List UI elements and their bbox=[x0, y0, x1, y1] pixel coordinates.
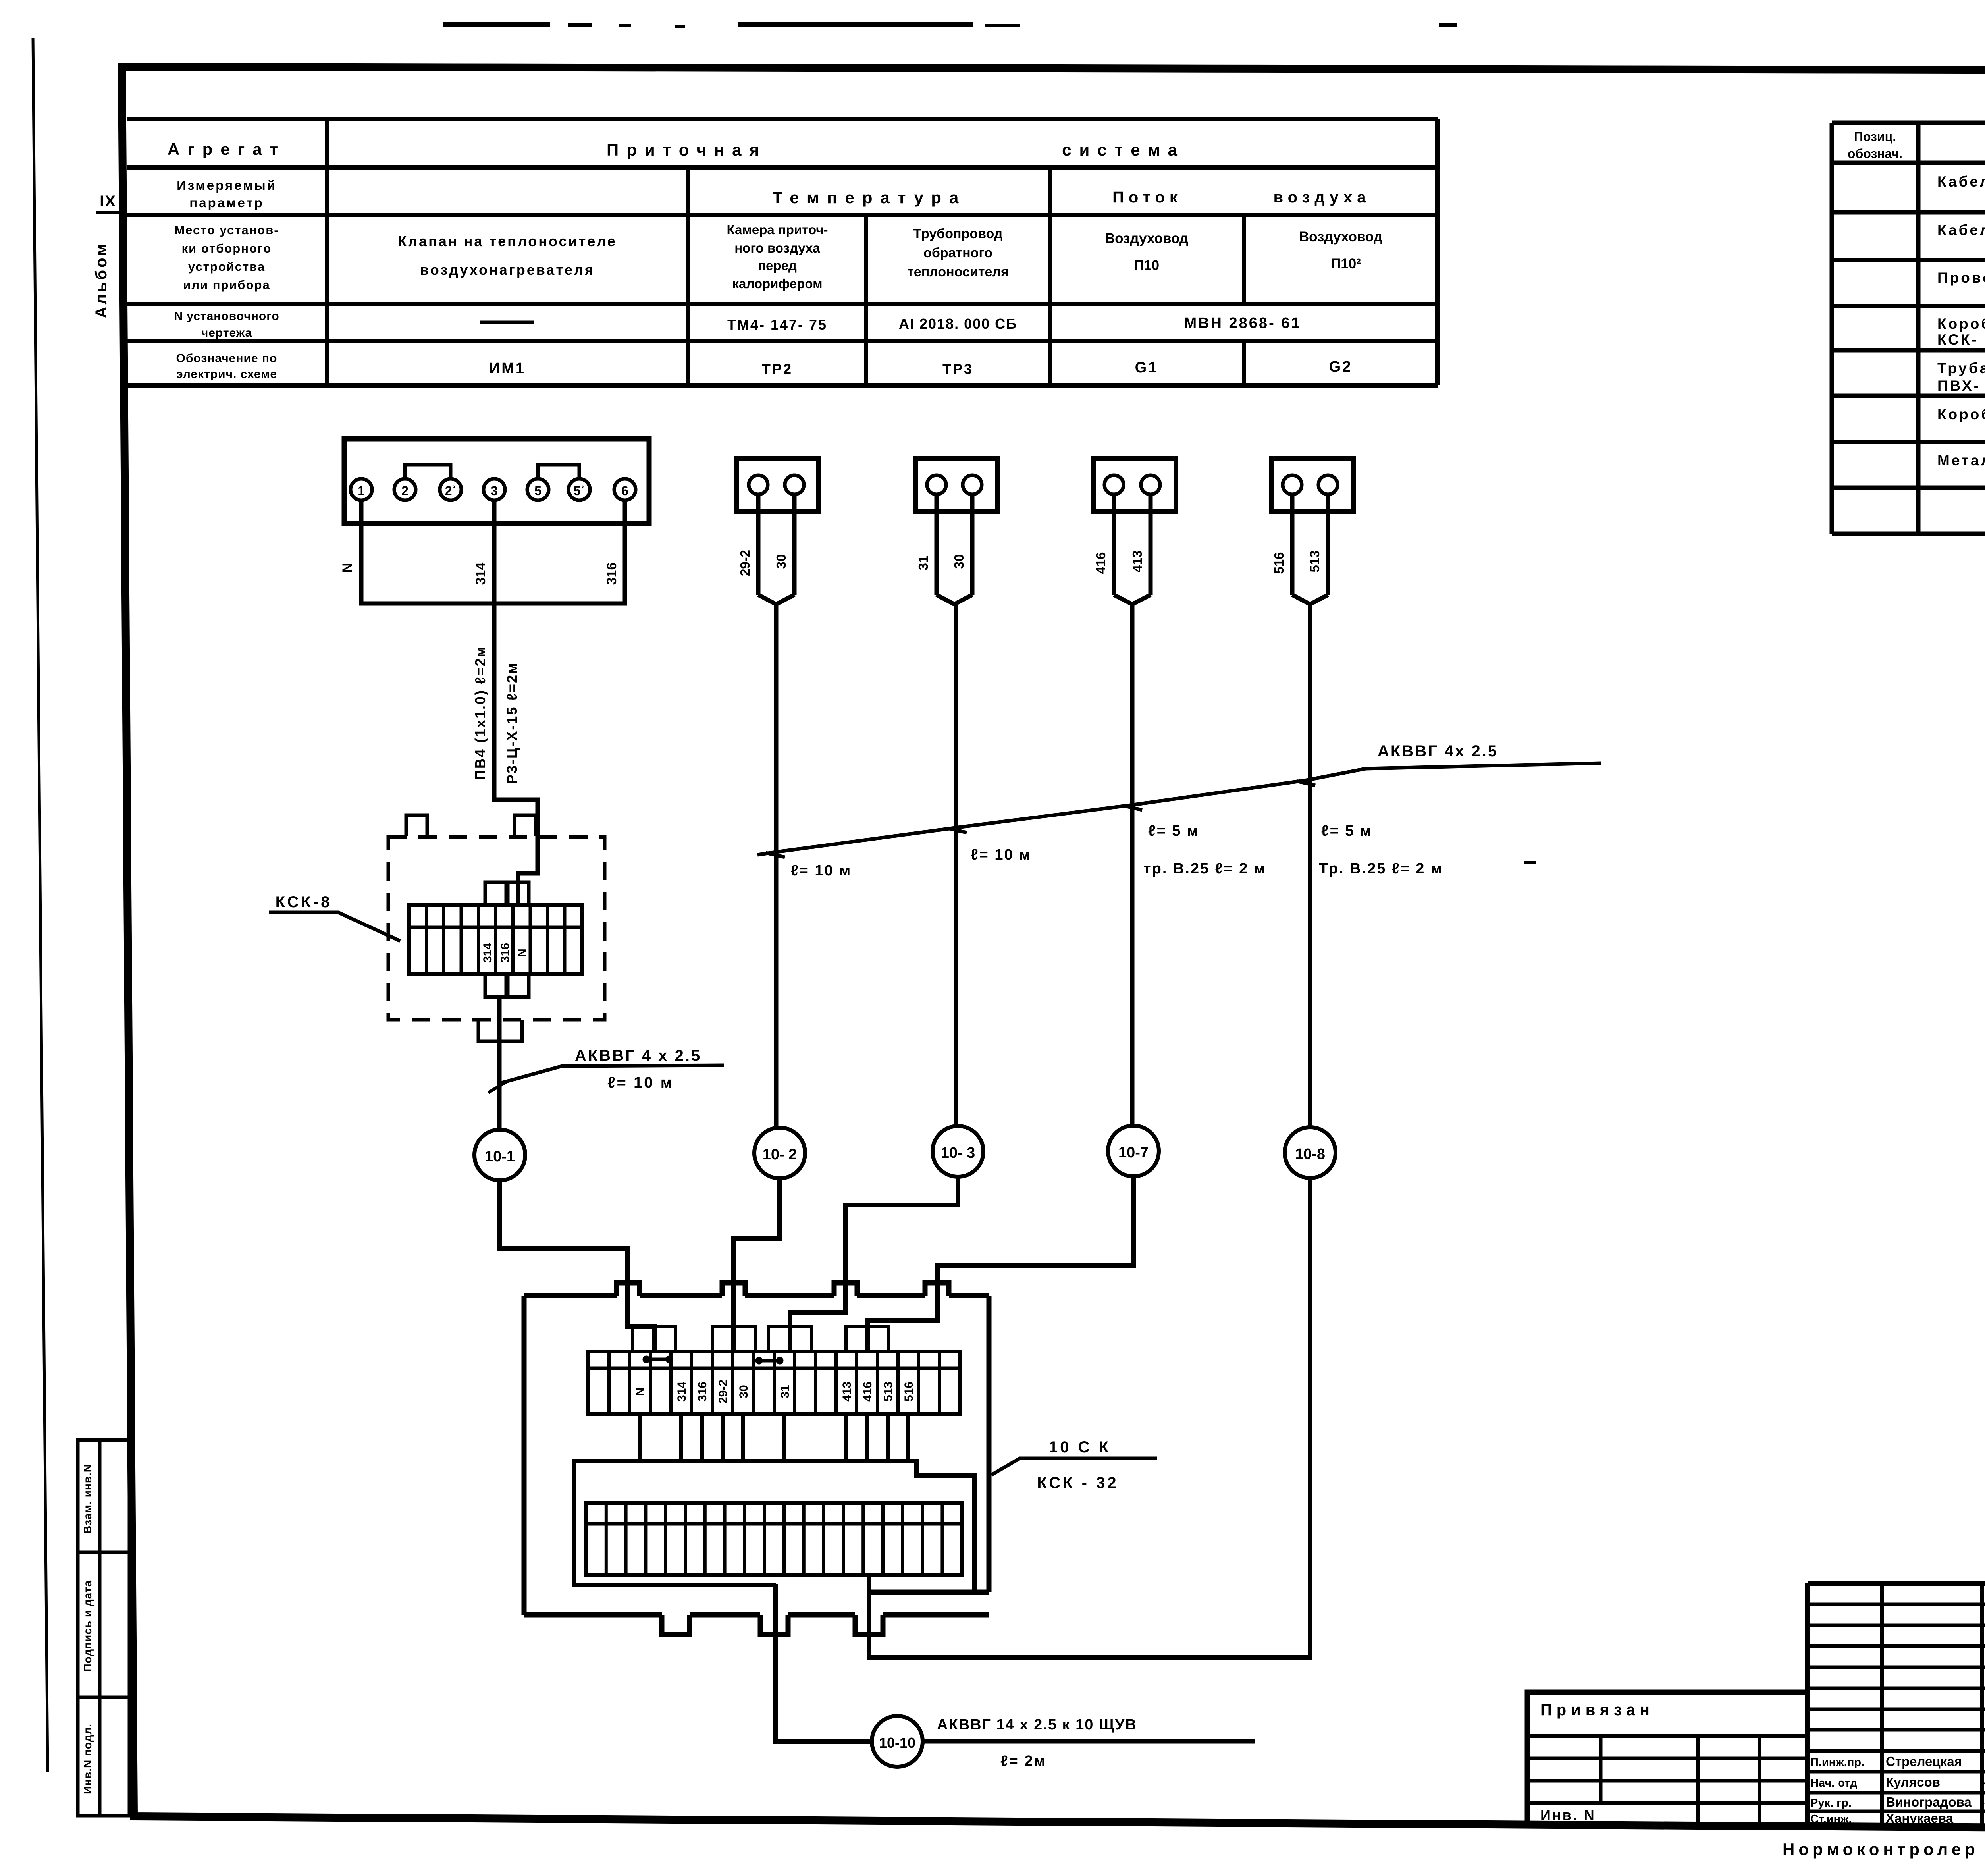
wire 10-1 to KCK-32 bbox=[500, 1180, 654, 1352]
svg-text:Кулясов: Кулясов bbox=[1886, 1775, 1940, 1789]
svg-text:МВН 2868- 61: МВН 2868- 61 bbox=[1184, 315, 1301, 332]
svg-text:10-7: 10-7 bbox=[1118, 1144, 1149, 1161]
wire from TP3 down to 10-3 bbox=[954, 604, 958, 1126]
svg-text:Трубопровод: Трубопровод bbox=[913, 226, 1003, 241]
svg-text:КСК-8: КСК-8 bbox=[276, 893, 332, 911]
svg-text:тр. В.25 ℓ= 2 м: тр. В.25 ℓ= 2 м bbox=[1143, 860, 1266, 877]
measurement table: grid bbox=[127, 117, 1438, 121]
svg-text:314: 314 bbox=[675, 1382, 688, 1402]
duct sensor box TP3 (31/30) bbox=[915, 458, 998, 511]
crossing ticks bbox=[766, 853, 785, 857]
svg-text:Агрегат: Агрегат bbox=[168, 140, 286, 158]
diagonal cable line AKVVG 4x2.5 bbox=[757, 763, 1601, 855]
node 10-10 bbox=[872, 1716, 923, 1767]
svg-text:Провод ПВ1 1х1.0: Провод ПВ1 1х1.0 bbox=[1937, 270, 1985, 286]
title block grid bbox=[1808, 1581, 1985, 1586]
exit terminals bbox=[485, 974, 506, 997]
svg-text:П.инж.пр.: П.инж.пр. bbox=[1810, 1756, 1864, 1769]
svg-text:513: 513 bbox=[882, 1382, 895, 1402]
terminal 5&#702; bbox=[569, 479, 590, 500]
svg-text:10-1: 10-1 bbox=[485, 1148, 515, 1165]
bottom-left stamp column bbox=[78, 1440, 129, 1816]
wire 10-8 to KCK-32 bottom bbox=[869, 1178, 1310, 1657]
svg-text:электрич. схеме: электрич. схеме bbox=[176, 368, 277, 381]
duct sensor box G2 (516/513) bbox=[1272, 458, 1354, 511]
terminal 5 bbox=[527, 479, 549, 500]
terminal 1 bbox=[351, 479, 372, 500]
svg-text:Клапан на теплоносителе: Клапан на теплоносителе bbox=[398, 233, 617, 249]
svg-text:10-10: 10-10 bbox=[879, 1735, 915, 1751]
svg-text:N: N bbox=[634, 1387, 647, 1396]
svg-text:316: 316 bbox=[499, 943, 512, 963]
node 10-3 bbox=[933, 1126, 983, 1177]
KCK-32 upper terminal strip bbox=[588, 1352, 960, 1414]
exit wire to node 10-10 bbox=[776, 1584, 872, 1741]
terminal 2&#702; bbox=[440, 479, 461, 500]
svg-text:чертежа: чертежа bbox=[201, 326, 252, 339]
svg-text:416: 416 bbox=[1093, 552, 1108, 574]
parts list table: grid bbox=[1832, 121, 1985, 125]
KCK-8 bottom tab bbox=[478, 1020, 522, 1041]
bus joining wires bbox=[359, 602, 627, 606]
svg-text:Поток: Поток bbox=[1112, 189, 1182, 206]
svg-text:П10²: П10² bbox=[1331, 256, 1361, 272]
svg-text:система: система bbox=[1062, 141, 1185, 159]
svg-text:2ʾ: 2ʾ bbox=[445, 484, 456, 498]
svg-text:АКВВГ 14 х 2.5 к 10 ЩУ: АКВВГ 14 х 2.5 к 10 ЩУВ bbox=[937, 1716, 1137, 1733]
svg-text:10-8: 10-8 bbox=[1295, 1146, 1325, 1163]
svg-text:10- 3: 10- 3 bbox=[941, 1145, 975, 1161]
svg-text:Металлорукав Р3- Ц - Х - 15: Металлорукав Р3- Ц - Х - 15 bbox=[1937, 452, 1985, 469]
svg-text:516: 516 bbox=[902, 1382, 915, 1402]
svg-text:Альбом: Альбом bbox=[93, 241, 110, 318]
svg-text:КСК- 32: КСК- 32 bbox=[1937, 332, 1985, 348]
svg-text:416: 416 bbox=[861, 1382, 874, 1402]
cable label AKVVG 4x2.5 l=10m with leader bbox=[500, 1065, 724, 1083]
duct sensor box G1 (416/413) bbox=[1094, 458, 1176, 511]
svg-text:Кабель АКВВГ 14 х 2.5: Кабель АКВВГ 14 х 2.5 bbox=[1937, 222, 1985, 238]
svg-text:10 С К: 10 С К bbox=[1049, 1438, 1111, 1456]
svg-text:6: 6 bbox=[621, 484, 628, 498]
svg-text:П10: П10 bbox=[1134, 258, 1159, 273]
svg-text:ℓ= 10 м: ℓ= 10 м bbox=[971, 846, 1031, 863]
svg-text:АI 2018. 000 СБ: АI 2018. 000 СБ bbox=[899, 316, 1017, 332]
svg-text:АКВВГ 4х 2.5: АКВВГ 4х 2.5 bbox=[1378, 742, 1498, 760]
svg-text:IX: IX bbox=[100, 193, 116, 210]
svg-text:30: 30 bbox=[737, 1385, 750, 1398]
svg-text:Коробка соединительная: Коробка соединительная bbox=[1937, 316, 1985, 332]
svg-text:Воздуховод: Воздуховод bbox=[1299, 229, 1382, 245]
svg-text:перед: перед bbox=[758, 258, 797, 273]
svg-text:Подпись и дата: Подпись и дата bbox=[81, 1580, 94, 1672]
svg-text:30: 30 bbox=[774, 554, 788, 569]
cable down to KCK-8 junction box bbox=[494, 603, 538, 905]
terminal 3 bbox=[484, 479, 505, 500]
svg-text:Измеряемый: Измеряемый bbox=[177, 178, 277, 193]
svg-text:или прибора: или прибора bbox=[183, 278, 270, 292]
svg-text:413: 413 bbox=[1130, 550, 1145, 572]
instrument box IM1 (valve actuator terminals) bbox=[344, 439, 649, 523]
svg-text:КСК - 32: КСК - 32 bbox=[1037, 1474, 1118, 1492]
svg-text:ПВХ- В - РЭП 25У ТУ6..19- 0: ПВХ- В - РЭП 25У ТУ6..19- 051- 249- 79 bbox=[1937, 378, 1985, 394]
svg-text:ки отборного: ки отборного bbox=[182, 241, 272, 255]
entry terminals bbox=[485, 882, 506, 905]
svg-text:устройства: устройства bbox=[188, 260, 265, 274]
svg-text:Приточная: Приточная bbox=[607, 141, 767, 159]
svg-text:Камера приточ-: Камера приточ- bbox=[727, 222, 828, 237]
svg-text:Стрелецкая: Стрелецкая bbox=[1886, 1754, 1962, 1769]
jumper on strip 2 bbox=[759, 1359, 780, 1363]
svg-text:516: 516 bbox=[1272, 552, 1286, 574]
KCK-32 box outline with notches bbox=[524, 1293, 617, 1298]
svg-text:Взам. инв.N: Взам. инв.N bbox=[81, 1464, 94, 1534]
lower terminal strip bbox=[586, 1503, 962, 1575]
svg-text:ТР3: ТР3 bbox=[942, 361, 973, 377]
svg-text:3: 3 bbox=[491, 484, 498, 498]
svg-text:Рук. гр.: Рук. гр. bbox=[1810, 1797, 1852, 1809]
svg-text:Температура: Температура bbox=[773, 188, 967, 207]
svg-text:Место установ-: Место установ- bbox=[174, 223, 279, 237]
left attachment table bbox=[1527, 1692, 1808, 1825]
svg-text:N: N bbox=[340, 563, 355, 573]
KCK-8 top tabs bbox=[406, 815, 427, 836]
svg-text:ℓ= 10 м: ℓ= 10 м bbox=[791, 862, 852, 879]
node 10-1 bbox=[474, 1130, 525, 1180]
svg-text:G1: G1 bbox=[1135, 359, 1158, 376]
svg-text:АКВВГ 4 х 2.5: АКВВГ 4 х 2.5 bbox=[575, 1047, 701, 1064]
lower terminal block housing outline bbox=[574, 1461, 974, 1592]
svg-text:316: 316 bbox=[604, 563, 619, 585]
svg-text:Ст.инж.: Ст.инж. bbox=[1810, 1813, 1852, 1826]
svg-text:Позиц.: Позиц. bbox=[1854, 129, 1896, 144]
entry terminal pairs above strip bbox=[633, 1327, 653, 1352]
svg-text:30: 30 bbox=[952, 554, 966, 569]
svg-text:2: 2 bbox=[401, 484, 409, 498]
svg-text:Нормоконтролер: Нормоконтролер bbox=[1783, 1840, 1979, 1859]
svg-text:Виноградова: Виноградова bbox=[1886, 1795, 1972, 1809]
svg-text:31: 31 bbox=[779, 1385, 792, 1398]
svg-text:ℓ= 5 м: ℓ= 5 м bbox=[1321, 823, 1372, 839]
svg-text:10- 2: 10- 2 bbox=[763, 1146, 797, 1163]
KCK-8 junction box dashed outline bbox=[388, 837, 605, 1020]
svg-text:Р3-Ц-Х-15 ℓ=2м: Р3-Ц-Х-15 ℓ=2м bbox=[504, 662, 520, 784]
svg-text:воздухонагревателя: воздухонагревателя bbox=[420, 262, 595, 278]
svg-text:513: 513 bbox=[1307, 550, 1322, 572]
wire KCK-8 down to 10-1 bbox=[497, 997, 502, 1130]
svg-text:N: N bbox=[516, 949, 529, 957]
wire 314 from terminal 3 bbox=[492, 500, 497, 603]
node 10-8 bbox=[1285, 1127, 1336, 1178]
svg-text:ИМ1: ИМ1 bbox=[489, 360, 526, 377]
stub wires from upper strip to lower block bbox=[638, 1414, 642, 1461]
terminal 6 bbox=[614, 479, 636, 500]
svg-text:Кабель АКВВГ 4х2.5: Кабель АКВВГ 4х2.5 bbox=[1937, 174, 1985, 190]
wire from G1 down to 10-7 bbox=[1130, 604, 1135, 1126]
wire 316 from terminal 6 bbox=[623, 500, 627, 603]
svg-text:Ханукаева: Ханукаева bbox=[1886, 1811, 1954, 1826]
svg-text:Нач. отд: Нач. отд bbox=[1810, 1777, 1858, 1789]
svg-text:теплоносителя: теплоносителя bbox=[907, 264, 1009, 280]
wire from G2 down to 10-8 bbox=[1308, 604, 1312, 1127]
svg-text:ℓ= 10 м: ℓ= 10 м bbox=[607, 1074, 674, 1091]
svg-text:Инв.N подл.: Инв.N подл. bbox=[81, 1724, 94, 1794]
label 10SK KCK-32 with leader bbox=[991, 1458, 1157, 1475]
svg-text:Обозначение по: Обозначение по bbox=[176, 352, 278, 365]
svg-text:G2: G2 bbox=[1329, 359, 1353, 375]
wire 10-7 to KCK-32 bbox=[868, 1176, 1133, 1352]
svg-text:ТР2: ТР2 bbox=[762, 361, 793, 377]
svg-text:Тр. В.25 ℓ= 2 м: Тр. В.25 ℓ= 2 м bbox=[1319, 860, 1443, 877]
jumper on strip 1 bbox=[646, 1358, 669, 1361]
KCK-8 terminal strip bbox=[409, 905, 582, 974]
wire from TP2 down to 10-2 bbox=[774, 604, 779, 1128]
left margin vertical line bbox=[33, 38, 48, 1772]
node 10-7 bbox=[1108, 1126, 1159, 1176]
svg-text:параметр: параметр bbox=[189, 195, 264, 210]
svg-text:Воздуховод: Воздуховод bbox=[1105, 231, 1188, 246]
svg-text:5: 5 bbox=[534, 484, 542, 498]
node 10-2 bbox=[754, 1128, 805, 1178]
svg-text:ТМ4- 147- 75: ТМ4- 147- 75 bbox=[727, 316, 827, 333]
svg-text:29-2: 29-2 bbox=[717, 1380, 730, 1404]
svg-text:ℓ= 2м: ℓ= 2м bbox=[1000, 1753, 1046, 1770]
wire N from terminal 1 bbox=[359, 500, 364, 603]
wire 10-2 to KCK-32 bbox=[734, 1178, 780, 1352]
scan artifact dashes top edge bbox=[443, 22, 1985, 143]
svg-text:Привязан: Привязан bbox=[1540, 1701, 1654, 1719]
svg-text:314: 314 bbox=[473, 563, 488, 585]
svg-text:5ʾ: 5ʾ bbox=[574, 484, 585, 498]
svg-text:N установочного: N установочного bbox=[174, 310, 279, 323]
svg-text:316: 316 bbox=[696, 1382, 709, 1402]
svg-text:Труба винипластовая: Труба винипластовая bbox=[1937, 360, 1985, 376]
svg-text:обратного: обратного bbox=[923, 245, 992, 260]
svg-text:314: 314 bbox=[481, 943, 494, 963]
svg-text:ПВ4 (1х1.0) ℓ=2м: ПВ4 (1х1.0) ℓ=2м bbox=[472, 646, 488, 780]
duct sensor box TP2 (29-2/30) bbox=[736, 458, 819, 511]
svg-text:29-2: 29-2 bbox=[738, 550, 752, 576]
svg-text:калорифером: калорифером bbox=[732, 276, 822, 291]
svg-text:413: 413 bbox=[840, 1382, 854, 1402]
svg-text:Инв. N: Инв. N bbox=[1540, 1807, 1596, 1823]
cable to 10SHUV bbox=[923, 1739, 1255, 1744]
svg-text:обознач.: обознач. bbox=[1848, 147, 1902, 161]
terminal 2 bbox=[394, 479, 416, 500]
svg-text:Коробка соединительная: Коробка соединительная bbox=[1937, 406, 1985, 422]
jumper 5-5' bbox=[538, 465, 579, 479]
svg-text:1: 1 bbox=[358, 484, 365, 498]
wire 10-3 to KCK-32 bbox=[790, 1177, 958, 1352]
svg-text:ного воздуха: ного воздуха bbox=[734, 241, 820, 255]
svg-text:31: 31 bbox=[916, 556, 931, 571]
svg-text:воздуха: воздуха bbox=[1274, 189, 1371, 206]
jumper 2-2' bbox=[405, 465, 451, 479]
svg-text:ℓ= 5 м: ℓ= 5 м bbox=[1148, 823, 1199, 839]
